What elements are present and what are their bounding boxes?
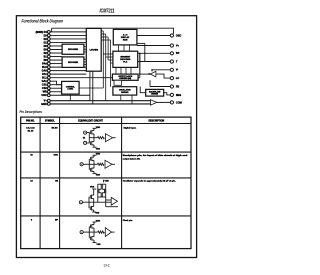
svg-text:V+: V+ [176, 44, 180, 47]
svg-text:VSS: VSS [96, 175, 101, 177]
svg-text:Oscillator expands to approxim: Oscillator expands to approximately 19 p… [123, 180, 176, 183]
svg-text:VSS: VSS [95, 213, 100, 215]
svg-text:13-2: 13-2 [103, 263, 110, 267]
svg-text:VSS: VSS [96, 148, 101, 150]
svg-text:DRIVER: DRIVER [151, 94, 158, 96]
svg-text:PLA: PLA [123, 61, 128, 64]
svg-text:DRIVERS (28): DRIVERS (28) [119, 78, 131, 80]
svg-text:LOGIC: LOGIC [67, 89, 73, 91]
svg-text:DIVIDER: DIVIDER [121, 92, 129, 94]
svg-text:VDD: VDD [96, 127, 101, 129]
svg-text:PIN NO.: PIN NO. [26, 120, 35, 122]
svg-text:Pin Descriptions: Pin Descriptions [20, 109, 43, 114]
svg-text:output data in bit.: output data in bit. [123, 158, 141, 161]
svg-text:VDD: VDD [96, 220, 101, 222]
svg-text:VDD: VDD [96, 154, 101, 156]
svg-text:Backplane pin. An input of thi: Backplane pin. An input of this circuit … [123, 154, 188, 157]
svg-text:EQUIVALENT CIRCUIT: EQUIVALENT CIRCUIT [78, 119, 103, 122]
svg-text:OSC: OSC [176, 34, 182, 37]
svg-text:DECODER: DECODER [68, 49, 79, 51]
svg-text:ICM7211: ICM7211 [100, 9, 115, 15]
svg-text:COM: COM [176, 101, 182, 104]
svg-text:Clock pin.: Clock pin. [123, 220, 133, 222]
svg-text:OSC: OSC [41, 94, 47, 97]
svg-text:15, 16: 15, 16 [28, 131, 35, 133]
svg-text:RAM: RAM [123, 38, 128, 41]
svg-text:B0-B3: B0-B3 [51, 127, 58, 129]
svg-text:V-: V- [176, 69, 179, 72]
svg-text:DECODER: DECODER [68, 62, 79, 64]
svg-text:DESCRIPTION: DESCRIPTION [148, 120, 164, 122]
svg-text:LC: LC [176, 77, 180, 80]
svg-text:FB: FB [176, 85, 180, 88]
svg-text:SYMBOL: SYMBOL [45, 120, 55, 122]
svg-text:VDD: VDD [105, 181, 110, 183]
svg-text:OSC: OSC [53, 154, 58, 156]
svg-text:VSS: VSS [97, 244, 102, 246]
svg-text:Functional Block Diagram: Functional Block Diagram [22, 18, 64, 23]
svg-text:GND: GND [41, 103, 47, 106]
svg-text:Digital input.: Digital input. [124, 127, 137, 130]
svg-text:VDD: VDD [90, 187, 95, 189]
svg-text:LATCHES: LATCHES [90, 49, 99, 52]
svg-text:SEG: SEG [176, 94, 181, 97]
svg-text:BP: BP [176, 52, 180, 55]
svg-text:3-6, 9-12: 3-6, 9-12 [26, 127, 35, 129]
